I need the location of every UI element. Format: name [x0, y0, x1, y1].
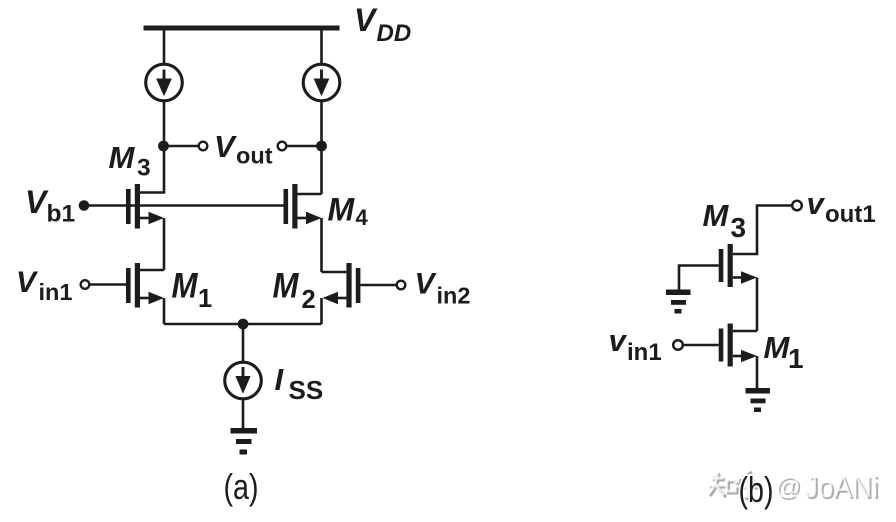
label M2 — [273, 267, 316, 315]
wire node A to Vout left terminal — [164, 145, 199, 148]
label (b) — [739, 469, 774, 510]
svg-text:in1: in1 — [39, 279, 73, 305]
svg-text:JoANi: JoANi — [804, 469, 878, 504]
svg-text:out: out — [236, 143, 273, 169]
svg-text:DD: DD — [377, 20, 412, 47]
svg-text:in2: in2 — [437, 283, 471, 309]
VDD rail — [144, 26, 340, 31]
svg-text:out1: out1 — [825, 201, 876, 228]
wire M1b source to ground — [756, 356, 759, 388]
current source ISS — [225, 362, 262, 399]
watermark zhihu hanzi — [710, 472, 760, 499]
wire node B down to M4 drain — [320, 146, 323, 194]
wire Vout right terminal to node B — [287, 145, 322, 148]
svg-text:V: V — [214, 129, 237, 164]
node tail dot — [238, 319, 249, 330]
wire ISS to ground — [242, 399, 245, 428]
wire M3b source down to M1b drain — [756, 278, 759, 332]
wire M1 source down to tail rail — [163, 298, 166, 324]
svg-text:V: V — [25, 184, 49, 220]
label M4 — [328, 192, 369, 231]
current source I1 — [146, 64, 183, 101]
wire VDD rail to current source I2 — [320, 28, 323, 65]
wire M4 source down to M2 drain — [320, 218, 323, 272]
svg-text:@: @ — [775, 473, 800, 501]
wire vin1 to M1b gate — [684, 344, 719, 347]
label vout1 — [807, 186, 876, 228]
wire gate bus Vb1 to M4 gate — [84, 204, 284, 207]
svg-text:M: M — [273, 267, 300, 306]
terminal Vin2 (open circle) — [397, 281, 406, 290]
wire M2 gate to Vin2 terminal — [360, 284, 396, 287]
wire M1b drain lead — [733, 330, 757, 333]
label M1 (circuit b) — [764, 330, 804, 374]
wire M3 source down to M1 drain — [163, 218, 166, 270]
label Vin1 — [16, 266, 72, 305]
label vin1 — [609, 323, 662, 366]
terminal Vin1 (open circle) — [81, 280, 90, 289]
watermark @JoANi — [775, 469, 880, 506]
svg-text:V: V — [354, 2, 378, 38]
label M3 — [109, 140, 151, 182]
svg-text:4: 4 — [356, 205, 369, 230]
transistor M4 — [284, 184, 322, 229]
svg-text:1: 1 — [198, 285, 212, 313]
terminal vout1 (open circle) — [792, 201, 802, 211]
label M1 — [172, 267, 213, 314]
svg-text:3: 3 — [137, 155, 151, 182]
label VDD — [354, 2, 411, 47]
svg-text:V: V — [16, 266, 39, 299]
svg-text:M: M — [172, 267, 199, 306]
terminal Vout right (open circle) — [278, 142, 287, 151]
wire Vin1 to M1 gate — [90, 283, 126, 286]
label Vb1 — [25, 184, 75, 228]
transistor M1 — [126, 263, 164, 308]
svg-text:V: V — [415, 268, 438, 301]
svg-text:3: 3 — [731, 212, 747, 243]
svg-text:M: M — [703, 198, 730, 233]
label Vin2 — [415, 268, 471, 309]
transistor M3 — [126, 184, 164, 229]
svg-text:(a): (a) — [224, 466, 259, 507]
wire M2 source down to tail rail — [320, 298, 323, 324]
label Vout — [214, 129, 273, 169]
ground (M1b source) — [746, 388, 771, 412]
svg-text:v: v — [807, 186, 826, 221]
watermark zhihu hanzi highlight — [708, 470, 758, 497]
label (a) — [224, 466, 259, 507]
circuit b: wire M3b drain up to vout1 — [733, 206, 792, 255]
svg-text:M: M — [109, 140, 136, 175]
wire tail rail — [164, 323, 322, 326]
svg-text:1: 1 — [788, 343, 804, 374]
svg-text:M: M — [328, 192, 356, 228]
wire node A down to M3 drain — [140, 146, 164, 193]
node B dot (drain M4 / I2 / Vout tap) — [316, 141, 327, 152]
label M3 (circuit b) — [703, 198, 747, 243]
svg-text:(b): (b) — [739, 469, 774, 510]
svg-text:SS: SS — [289, 375, 324, 405]
wire M3b gate to ground — [679, 266, 719, 290]
wire tail node to ISS — [242, 324, 245, 362]
terminal vin1 (open circle) — [673, 340, 683, 350]
label ISS — [275, 362, 324, 405]
svg-text:b1: b1 — [47, 201, 76, 228]
ground (M3b gate) — [666, 290, 691, 314]
terminal Vout left (open circle) — [199, 142, 208, 151]
wire I1 to node A — [163, 101, 166, 146]
svg-text:v: v — [609, 323, 628, 358]
svg-text:I: I — [275, 362, 285, 397]
svg-text:M: M — [764, 330, 791, 365]
current source I2 — [303, 64, 340, 101]
transistor M1b — [719, 324, 757, 367]
ground (tail) — [231, 428, 258, 455]
transistor M2 (mirrored) — [322, 263, 361, 308]
node Vb1 dot — [79, 200, 90, 211]
wire VDD rail to current source I1 — [163, 28, 166, 65]
wire I2 to node B — [320, 101, 323, 146]
node A dot (drain M3 / I1 / Vout tap) — [158, 141, 169, 152]
svg-text:in1: in1 — [627, 339, 662, 366]
svg-text:2: 2 — [302, 286, 316, 314]
transistor M3b — [719, 244, 757, 287]
